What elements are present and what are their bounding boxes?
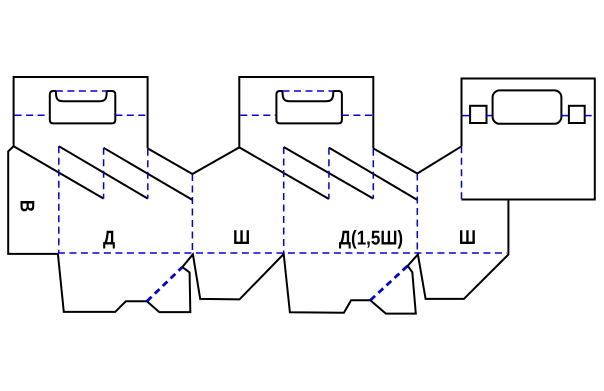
panel 1 handle grip flap [56,91,107,101]
fold vertical v5 [328,148,330,199]
bottom fold line [58,252,507,254]
svg-text:Д(1,5Ш): Д(1,5Ш) [339,228,403,250]
fold vertical v6 [372,149,374,199]
divider cut D3 [104,148,193,200]
panel 3 right square hole [569,106,585,123]
svg-text:Ш: Ш [233,227,250,249]
panel 3 fold line segment c [561,115,569,117]
divider cut D6 [284,147,374,199]
panel 2 fold line right segment [342,114,372,116]
fold vertical v1 [58,146,60,253]
panel 3 left fold line [461,146,463,199]
panel 3 outline [462,79,595,200]
divider cut D4 [148,148,193,174]
panel 2 handle hole [276,91,342,123]
panel 1 fold line left segment [15,114,50,116]
panel 3 left square hole [470,106,486,123]
fold vertical v2 [103,148,105,199]
svg-text:Ш: Ш [459,227,476,249]
panel 1 grip fold line [56,90,107,92]
divider cut D1 [14,146,104,198]
panel 3 fold line segment b [487,115,493,117]
divider cut D8 [373,148,417,173]
panel 2 handle grip flap [283,91,334,101]
panel 2 top flap outline [239,77,373,148]
fold vertical v4 [283,147,285,253]
bold fold diagonal flap 3 [370,266,407,301]
panel 1 handle hole [50,91,116,123]
bottom flaps outline [58,200,509,314]
panel 2 fold line left segment [240,114,276,116]
svg-text:В: В [15,200,37,212]
left wall edge [8,146,58,254]
valley cut 1 [192,147,239,174]
divider cut D2 [59,146,148,198]
panel 3 fold line segment d [585,115,594,117]
valley cut 2 [417,146,461,173]
panel 3 fold line segment a [463,115,471,117]
divider cut D7 [329,148,417,200]
panel 2 grip fold line [283,90,334,92]
svg-text:Д: Д [103,228,115,250]
panel 1 top flap outline [14,77,148,148]
fold vertical wall fold 1 [191,174,193,253]
panel 3 handle hole [493,90,562,123]
fold vertical wall fold 2 [416,174,418,254]
panel 1 fold line right segment [115,114,146,116]
divider cut D5 [239,147,329,199]
fold vertical v3 [147,149,149,199]
bold fold diagonal flap 1 [147,267,182,301]
